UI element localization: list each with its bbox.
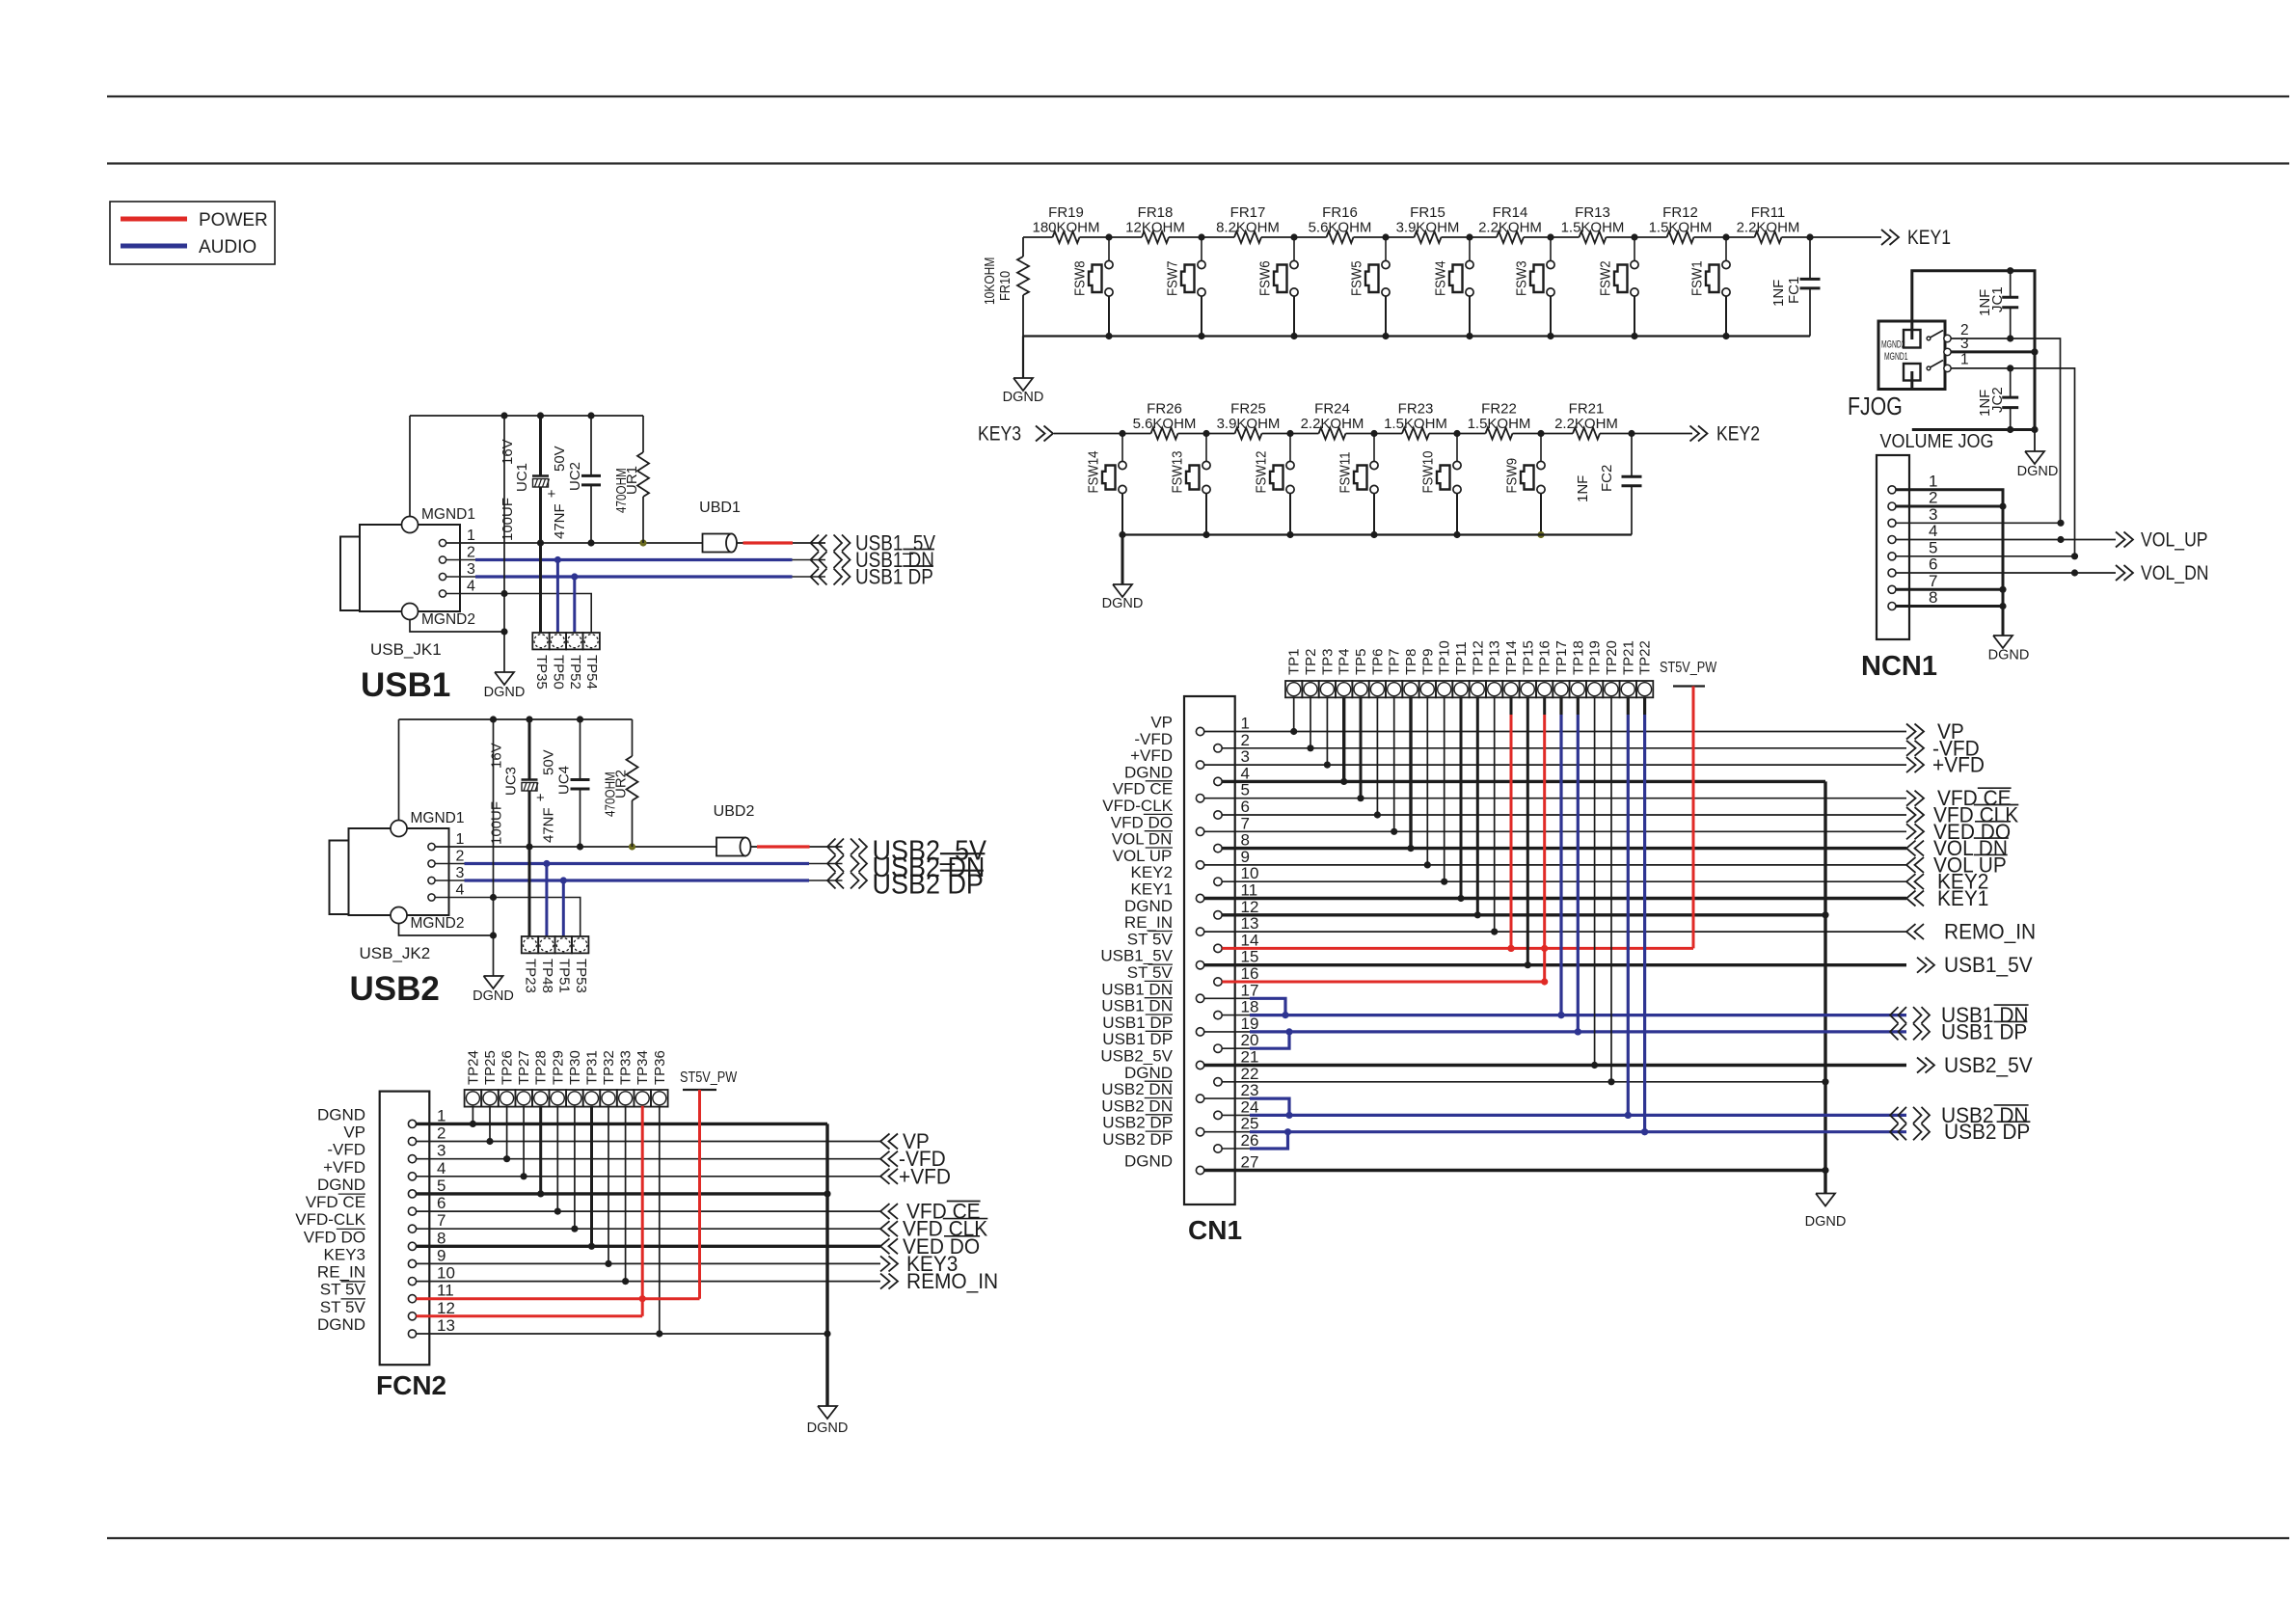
svg-text:6: 6 bbox=[1241, 798, 1250, 816]
wire CN1 VFD_CLK net bbox=[1222, 814, 1906, 816]
port CN1 row24 bbox=[1890, 1103, 2029, 1127]
legend POWER line bbox=[121, 217, 187, 222]
svg-text:USB1: USB1 bbox=[361, 666, 450, 704]
svg-text:100UF: 100UF bbox=[489, 801, 505, 845]
junction dot TP7 bbox=[1391, 828, 1397, 835]
junction dot TP14 bbox=[1507, 945, 1514, 952]
wire FCN2 pin9 net bbox=[417, 1262, 880, 1264]
resistor FR13 1.5KOHM bbox=[1561, 204, 1625, 243]
svg-text:VOL DN: VOL DN bbox=[1112, 830, 1173, 849]
svg-text:UC3: UC3 bbox=[503, 767, 520, 796]
junction dot FSW1 top bbox=[1722, 233, 1729, 240]
svg-text:JC1: JC1 bbox=[1989, 286, 2006, 312]
ground DGND CN1 bbox=[1816, 1194, 1835, 1206]
junction dot TP15 bbox=[1525, 961, 1531, 968]
wire TP12 drop bbox=[1476, 697, 1479, 915]
junction dot TP1 bbox=[1290, 728, 1297, 735]
junction dot FSW9 bottom bbox=[1537, 531, 1544, 538]
junction dot TP36 bbox=[656, 1330, 662, 1337]
junction dot NCN1 pin8 bbox=[1999, 603, 2006, 609]
svg-text:TP21: TP21 bbox=[1620, 640, 1636, 675]
svg-text:17: 17 bbox=[1241, 981, 1259, 999]
FCN2 pin 6 bbox=[306, 1193, 446, 1215]
svg-text:DGND: DGND bbox=[1124, 897, 1173, 915]
junction dot NCN1 pin4 bbox=[2057, 536, 2064, 543]
CN1 pin 12 bbox=[1124, 897, 1258, 919]
svg-text:MGND1: MGND1 bbox=[1884, 350, 1908, 362]
svg-text:USB1 DN: USB1 DN bbox=[1101, 997, 1173, 1015]
wire TP33 drop bbox=[625, 1106, 627, 1282]
CN1 pin 25 bbox=[1102, 1114, 1258, 1136]
svg-text:KEY1: KEY1 bbox=[1131, 880, 1173, 899]
NCN1 pin 6 bbox=[1888, 555, 1937, 578]
junction dot FCN2 DGND pin5 bbox=[824, 1190, 830, 1197]
junction dot FSW10 top bbox=[1453, 430, 1460, 437]
resistor FR16 5.6KOHM bbox=[1309, 204, 1372, 243]
NCN1 pin 3 bbox=[1888, 505, 1937, 528]
wire CN1 pin4 DGND bbox=[1222, 780, 1825, 783]
junction dot TP13 bbox=[1491, 929, 1498, 935]
wire NCN1 pin6 VOL_DN bbox=[1896, 572, 2116, 574]
wire FJOG pin3 net bbox=[1951, 350, 2035, 353]
svg-text:ST 5V: ST 5V bbox=[1127, 963, 1174, 982]
svg-text:1: 1 bbox=[1960, 352, 1969, 368]
svg-text:7: 7 bbox=[1929, 572, 1937, 590]
svg-text:FSW8: FSW8 bbox=[1071, 260, 1088, 296]
svg-text:4: 4 bbox=[1929, 522, 1937, 540]
wire TP6 drop bbox=[1376, 697, 1378, 815]
USB_JK1 pin 2 bbox=[439, 545, 475, 564]
junction dot FSW2 top bbox=[1631, 233, 1637, 240]
wire CN1 VP net bbox=[1204, 731, 1906, 733]
switch FSW13 bbox=[1169, 434, 1210, 535]
junction dot FSW8 top bbox=[1105, 233, 1112, 240]
svg-text:NCN1: NCN1 bbox=[1861, 651, 1937, 682]
svg-text:KEY1: KEY1 bbox=[1937, 887, 1988, 911]
wire TP31 drop bbox=[590, 1106, 593, 1247]
FJOG lever lower bbox=[1927, 361, 1943, 370]
wire NCN1 pin3 bbox=[1896, 522, 2061, 524]
svg-text:12KOHM: 12KOHM bbox=[1125, 220, 1185, 236]
CN1 pin 11 bbox=[1131, 880, 1258, 903]
wire FCN2 pin3 net bbox=[417, 1158, 880, 1160]
svg-text:KEY1: KEY1 bbox=[1907, 227, 1951, 250]
test point TP31 bbox=[583, 1050, 601, 1106]
test point TP51 bbox=[555, 877, 573, 992]
test point TP20 bbox=[1603, 640, 1620, 697]
wire FJOG ground rail bbox=[1912, 428, 2035, 431]
FJOG pin 2 bbox=[1944, 322, 1969, 342]
junction dot FSW2 bottom bbox=[1631, 333, 1637, 339]
wire NCN1 ground bus bbox=[1896, 490, 2003, 636]
wire NCN1 pin4 VOL_UP bbox=[1896, 539, 2116, 541]
svg-text:TP9: TP9 bbox=[1419, 648, 1436, 675]
wire USB1 5V net bbox=[446, 542, 703, 544]
svg-text:+VFD: +VFD bbox=[899, 1165, 951, 1189]
svg-text:DGND: DGND bbox=[2017, 464, 2059, 479]
switch FSW11 bbox=[1337, 434, 1378, 535]
NCN1 pin 2 bbox=[1888, 489, 1937, 511]
svg-text:1: 1 bbox=[437, 1106, 446, 1124]
svg-text:TP51: TP51 bbox=[555, 959, 572, 993]
svg-text:FR14: FR14 bbox=[1493, 204, 1528, 221]
junction dot FSW5 bottom bbox=[1382, 333, 1389, 339]
svg-text:UC4: UC4 bbox=[556, 766, 573, 795]
port FCN2 VFD_DO bbox=[880, 1234, 980, 1259]
svg-text:USB_JK1: USB_JK1 bbox=[370, 640, 442, 659]
CN1 pin 5 bbox=[1113, 780, 1250, 802]
svg-text:47NF: 47NF bbox=[541, 807, 557, 843]
junction dot rail UC1 bbox=[537, 412, 544, 419]
svg-text:1: 1 bbox=[1241, 715, 1250, 733]
junction dot FSW14 bottom bbox=[1119, 531, 1125, 538]
svg-text:REMO_IN: REMO_IN bbox=[906, 1270, 998, 1294]
resistor FR25 3.9KOHM bbox=[1217, 401, 1281, 440]
svg-text:UC2: UC2 bbox=[567, 462, 583, 491]
test point TP14 bbox=[1502, 640, 1520, 697]
svg-text:DGND: DGND bbox=[1124, 1064, 1173, 1082]
wire USB1 top rail bbox=[410, 415, 643, 417]
CN1 pin 1 bbox=[1150, 714, 1250, 736]
svg-text:TP50: TP50 bbox=[550, 655, 566, 690]
test point TP10 bbox=[1436, 640, 1453, 697]
svg-text:-VFD: -VFD bbox=[1134, 730, 1173, 748]
junction dot FSW13 top bbox=[1202, 430, 1209, 437]
junction dot FSW11 top bbox=[1370, 430, 1377, 437]
port CN1 row19 bbox=[1890, 1020, 2027, 1044]
resistor FR15 3.9KOHM bbox=[1396, 204, 1460, 243]
svg-text:KEY3: KEY3 bbox=[324, 1245, 365, 1263]
port VOL_UP bbox=[2116, 528, 2208, 552]
svg-text:USB2 DP: USB2 DP bbox=[1102, 1114, 1173, 1132]
svg-text:3: 3 bbox=[437, 1142, 446, 1160]
wire CN1 REMO_IN net bbox=[1204, 931, 1906, 933]
test point TP32 bbox=[600, 1050, 617, 1106]
svg-text:TP17: TP17 bbox=[1553, 640, 1570, 675]
junction dot USB pair TP bbox=[1575, 1028, 1581, 1035]
USB_JK2 shield MGND2 bbox=[391, 907, 494, 936]
junction dot TP5 bbox=[1357, 795, 1364, 801]
test point TP16 bbox=[1536, 640, 1553, 697]
svg-text:TP31: TP31 bbox=[584, 1050, 601, 1085]
switch FSW1 bbox=[1688, 237, 1730, 337]
CN1 pin 23 bbox=[1101, 1080, 1258, 1102]
svg-text:50V: 50V bbox=[541, 749, 557, 775]
FJOG pin 3 bbox=[1944, 336, 1969, 356]
svg-text:USB2_5V: USB2_5V bbox=[1944, 1054, 2033, 1078]
USB_JK1 shield MGND2 bbox=[402, 604, 505, 633]
svg-text:DGND: DGND bbox=[1988, 648, 2030, 663]
svg-text:TP11: TP11 bbox=[1453, 641, 1470, 675]
wire TP2 drop bbox=[1310, 697, 1311, 748]
svg-text:DGND: DGND bbox=[317, 1315, 365, 1334]
svg-text:FJOG: FJOG bbox=[1848, 392, 1903, 421]
svg-text:RE_IN: RE_IN bbox=[317, 1263, 365, 1282]
test point TP17 bbox=[1553, 640, 1570, 697]
FCN2 pin 9 bbox=[324, 1245, 446, 1267]
svg-text:DGND: DGND bbox=[1003, 390, 1044, 405]
ground DGND FJOG bbox=[2017, 430, 2059, 480]
svg-text:VFD-CLK: VFD-CLK bbox=[1102, 797, 1173, 815]
junction dot TP28 bbox=[537, 1190, 544, 1197]
wire CN1 KEY2 net bbox=[1222, 880, 1906, 882]
svg-text:MGND2: MGND2 bbox=[1881, 338, 1905, 350]
FCN2 pin 11 bbox=[320, 1281, 454, 1303]
CN1 pin 24 bbox=[1101, 1096, 1258, 1119]
junction dot JC2 bottom bbox=[2007, 426, 2013, 433]
svg-text:FSW11: FSW11 bbox=[1337, 451, 1353, 493]
svg-text:8.2KOHM: 8.2KOHM bbox=[1216, 220, 1280, 236]
junction dot TP31 bbox=[588, 1243, 595, 1250]
svg-text:TP7: TP7 bbox=[1387, 648, 1403, 675]
wire TP7 drop bbox=[1393, 697, 1395, 832]
CN1 pin 3 bbox=[1130, 746, 1250, 769]
junction dot MGND2 gnd bbox=[500, 628, 507, 635]
resistor FR21 2.2KOHM bbox=[1554, 401, 1618, 440]
svg-text:TP34: TP34 bbox=[635, 1050, 651, 1085]
FCN2 pin 12 bbox=[320, 1298, 455, 1320]
svg-text:TP8: TP8 bbox=[1403, 648, 1419, 675]
svg-text:FSW14: FSW14 bbox=[1085, 450, 1101, 493]
svg-text:DGND: DGND bbox=[1124, 1152, 1173, 1171]
test point TP22 bbox=[1636, 640, 1654, 697]
test point TP15 bbox=[1520, 640, 1537, 697]
svg-text:FR19: FR19 bbox=[1048, 204, 1084, 221]
FCN2 pin 7 bbox=[295, 1210, 446, 1232]
test point TP5 bbox=[1352, 648, 1369, 697]
svg-text:DGND: DGND bbox=[1805, 1214, 1847, 1230]
test point TP29 bbox=[550, 1050, 567, 1106]
wire FCN2 pin11 ST_5V red bbox=[417, 1297, 700, 1300]
junction dot FSW3 bottom bbox=[1547, 333, 1553, 339]
junction dot TP18 bbox=[1575, 1028, 1581, 1035]
FCN2 pin 5 bbox=[317, 1176, 446, 1198]
junction dot FSW9 top bbox=[1537, 430, 1544, 437]
svg-text:FC1: FC1 bbox=[1786, 277, 1802, 304]
svg-text:ST 5V: ST 5V bbox=[320, 1298, 366, 1316]
port USB1_DN bbox=[811, 549, 934, 573]
junction dot FSW10 bottom bbox=[1453, 531, 1460, 538]
port FCN2 REMO_IN bbox=[880, 1270, 998, 1294]
wire CN1 pin23 USB pair jog bbox=[1204, 1098, 1289, 1115]
test point TP36 bbox=[651, 1050, 668, 1106]
resistor FR23 1.5KOHM bbox=[1384, 401, 1447, 440]
CN1 pin 26 bbox=[1102, 1130, 1258, 1152]
port FCN2 VFD_CLK bbox=[880, 1217, 988, 1241]
svg-text:DGND: DGND bbox=[807, 1421, 849, 1436]
svg-text:TP54: TP54 bbox=[583, 655, 600, 690]
svg-text:8: 8 bbox=[1241, 831, 1250, 850]
wire TP15 drop bbox=[1526, 697, 1529, 965]
wire USB1 pin4 gnd bbox=[446, 594, 592, 634]
test point TP3 bbox=[1319, 648, 1337, 697]
wire TP27 drop bbox=[523, 1106, 525, 1177]
wire USB2 5V power segment bbox=[751, 846, 843, 848]
FJOG lever upper bbox=[1927, 331, 1943, 340]
junction dot FSW8 bottom bbox=[1105, 333, 1112, 339]
wire FCN2 pin4 net bbox=[417, 1176, 880, 1177]
wire TP10 drop bbox=[1444, 697, 1445, 882]
junction dot TP19 bbox=[1591, 1062, 1598, 1069]
svg-text:VOL UP: VOL UP bbox=[1113, 847, 1173, 865]
FCN2 pin 8 bbox=[304, 1228, 446, 1250]
svg-text:FR15: FR15 bbox=[1410, 204, 1445, 221]
junction dot TP8 bbox=[1407, 845, 1414, 852]
capacitor UC2 47NF 50V bbox=[552, 416, 601, 543]
svg-text:5.6KOHM: 5.6KOHM bbox=[1133, 416, 1197, 432]
test point TP28 bbox=[532, 1050, 550, 1106]
junction dot TP24 bbox=[470, 1121, 476, 1127]
junction dot TP4 bbox=[1340, 778, 1347, 785]
svg-text:3.9KOHM: 3.9KOHM bbox=[1396, 220, 1460, 236]
junction dot TP6 bbox=[1374, 811, 1381, 818]
svg-text:TP25: TP25 bbox=[482, 1050, 499, 1085]
port USB1_DP bbox=[811, 565, 933, 589]
svg-text:TP48: TP48 bbox=[539, 959, 555, 993]
svg-text:2: 2 bbox=[437, 1124, 446, 1143]
test point TP34 bbox=[634, 1050, 651, 1106]
svg-text:TP28: TP28 bbox=[533, 1050, 550, 1085]
capacitor UC4 47NF 50V bbox=[541, 719, 590, 847]
svg-text:+: + bbox=[536, 790, 545, 806]
port FCN2 KEY3 bbox=[880, 1252, 958, 1276]
port CN1 row10 bbox=[1906, 870, 1988, 894]
svg-text:VOLUME JOG: VOLUME JOG bbox=[1880, 431, 1994, 452]
CN1 pin 13 bbox=[1124, 913, 1259, 935]
wire TP13 drop bbox=[1494, 697, 1496, 932]
junction dot FSW13 bottom bbox=[1202, 531, 1209, 538]
wire CN1 USB2_5V net bbox=[1204, 1064, 1906, 1067]
svg-text:USB1_5V: USB1_5V bbox=[1944, 954, 2033, 978]
svg-text:UR2: UR2 bbox=[613, 770, 630, 798]
svg-text:3: 3 bbox=[456, 865, 465, 881]
junction dot USB pair TP bbox=[1557, 1012, 1564, 1018]
svg-text:2.2KOHM: 2.2KOHM bbox=[1301, 416, 1364, 432]
port FCN2 VFD_CE bbox=[880, 1200, 981, 1224]
resistor UR2 470OHM bbox=[602, 719, 637, 847]
USB_JK2 shield MGND1 bbox=[391, 719, 464, 837]
FCN2 pin 1 bbox=[317, 1105, 446, 1127]
junction dot TP10 bbox=[1441, 879, 1447, 885]
test point TP35 bbox=[532, 633, 550, 690]
CN1 pin 22 bbox=[1124, 1064, 1258, 1086]
svg-text:USB1 DN: USB1 DN bbox=[1101, 980, 1173, 998]
test point TP53 bbox=[572, 936, 589, 993]
svg-text:TP2: TP2 bbox=[1303, 648, 1319, 675]
ST5V_PW power tap FCN2 bbox=[680, 1069, 738, 1090]
junction dot USB pair 26 bbox=[1284, 1128, 1291, 1135]
svg-text:DGND: DGND bbox=[1102, 596, 1144, 611]
wire TP11 drop bbox=[1460, 697, 1463, 899]
wire USB2 DP net bbox=[435, 880, 842, 881]
junction dot JC1 bottom bbox=[2007, 335, 2013, 341]
wire TP32 drop bbox=[608, 1106, 609, 1264]
junction dot ST_5V TP14 bbox=[1507, 945, 1514, 952]
wire CN1 pin18 USB net out bbox=[1222, 1015, 1906, 1016]
svg-text:FSW9: FSW9 bbox=[1503, 458, 1520, 494]
wire CN1 VFD_CE net bbox=[1204, 798, 1906, 799]
resistor FR10 10KOHM bbox=[982, 237, 1029, 337]
svg-text:FSW13: FSW13 bbox=[1169, 450, 1185, 493]
FJOG pin 1 bbox=[1944, 352, 1969, 372]
svg-text:6: 6 bbox=[1929, 555, 1937, 574]
svg-text:TP24: TP24 bbox=[465, 1050, 481, 1085]
wire KEY2 bottom rail bbox=[1122, 533, 1632, 535]
connector CN1 body bbox=[1184, 696, 1235, 1204]
CN1 pin 15 bbox=[1100, 947, 1258, 969]
wire CN1 +VFD net bbox=[1204, 764, 1906, 766]
test point TP19 bbox=[1586, 640, 1604, 697]
svg-text:DGND: DGND bbox=[317, 1176, 365, 1194]
svg-text:USB1 DP: USB1 DP bbox=[1941, 1020, 2027, 1044]
FJOG contact pad lower bbox=[1904, 364, 1921, 390]
junction dot TP22 bbox=[1641, 1128, 1648, 1135]
wire CN1 pin12 DGND bbox=[1222, 913, 1825, 916]
svg-text:TP10: TP10 bbox=[1437, 640, 1453, 675]
junction dot pin4 gnd bbox=[500, 590, 507, 597]
wire CN1 pin25 USB net out bbox=[1204, 1131, 1906, 1133]
test point TP21 bbox=[1620, 640, 1637, 697]
test point TP4 bbox=[1336, 648, 1353, 697]
ground DGND ladder1 bbox=[1003, 337, 1044, 406]
wire FCN2 pin7 net bbox=[417, 1228, 880, 1230]
wire TP20 drop bbox=[1610, 697, 1612, 1082]
port USB2_DP bbox=[827, 869, 984, 900]
svg-text:VFD CE: VFD CE bbox=[306, 1193, 365, 1211]
port CN1 row13 bbox=[1906, 920, 2036, 944]
junction dot FCN2 DGND pin13 bbox=[824, 1330, 830, 1337]
switch FSW10 bbox=[1419, 434, 1461, 535]
junction dot NCN1 pin3 bbox=[2057, 520, 2064, 527]
junction dot TP30 bbox=[571, 1226, 578, 1232]
wire TP4 drop bbox=[1342, 697, 1345, 782]
wire TP19 drop bbox=[1594, 697, 1596, 1066]
svg-text:USB2 DN: USB2 DN bbox=[1101, 1080, 1173, 1098]
svg-text:TP29: TP29 bbox=[550, 1050, 566, 1085]
capacitor UC3 100UF 16V bbox=[489, 719, 546, 936]
svg-text:10: 10 bbox=[1241, 864, 1259, 882]
svg-text:1: 1 bbox=[456, 831, 465, 848]
svg-text:100UF: 100UF bbox=[500, 498, 516, 541]
resistor FR14 2.2KOHM bbox=[1478, 204, 1542, 243]
junction dot 5V UC4 bbox=[577, 843, 583, 850]
wire CN1 pin24 USB net out bbox=[1222, 1114, 1906, 1116]
USB_JK2 pin 3 bbox=[428, 865, 465, 884]
junction dot FSW6 top bbox=[1290, 233, 1297, 240]
CN1 pin 14 bbox=[1127, 930, 1259, 952]
svg-text:FSW5: FSW5 bbox=[1348, 260, 1364, 296]
wire USB2 5V net bbox=[435, 846, 716, 848]
svg-text:180KOHM: 180KOHM bbox=[1032, 220, 1099, 236]
wire FJOG pin1 net bbox=[1951, 368, 2074, 556]
svg-text:USB2: USB2 bbox=[350, 970, 440, 1008]
svg-text:20: 20 bbox=[1241, 1031, 1259, 1049]
CN1 pin 9 bbox=[1113, 847, 1250, 869]
svg-text:9: 9 bbox=[1241, 848, 1250, 866]
port CN1 row9 bbox=[1906, 853, 2008, 878]
wire FCN2 pin5 DGND bbox=[417, 1192, 827, 1195]
wire CN1 pin27 DGND bbox=[1204, 1169, 1825, 1172]
junction dot TP3 bbox=[1324, 762, 1331, 769]
svg-text:AUDIO: AUDIO bbox=[199, 237, 257, 257]
svg-text:22: 22 bbox=[1241, 1065, 1259, 1083]
svg-text:+VFD: +VFD bbox=[1932, 753, 1985, 777]
svg-text:REMO_IN: REMO_IN bbox=[1944, 920, 2036, 944]
CN1 pin 2 bbox=[1134, 730, 1250, 752]
svg-text:TP4: TP4 bbox=[1337, 648, 1353, 675]
test point TP26 bbox=[499, 1050, 516, 1106]
FCN2 pin 2 bbox=[343, 1123, 446, 1146]
